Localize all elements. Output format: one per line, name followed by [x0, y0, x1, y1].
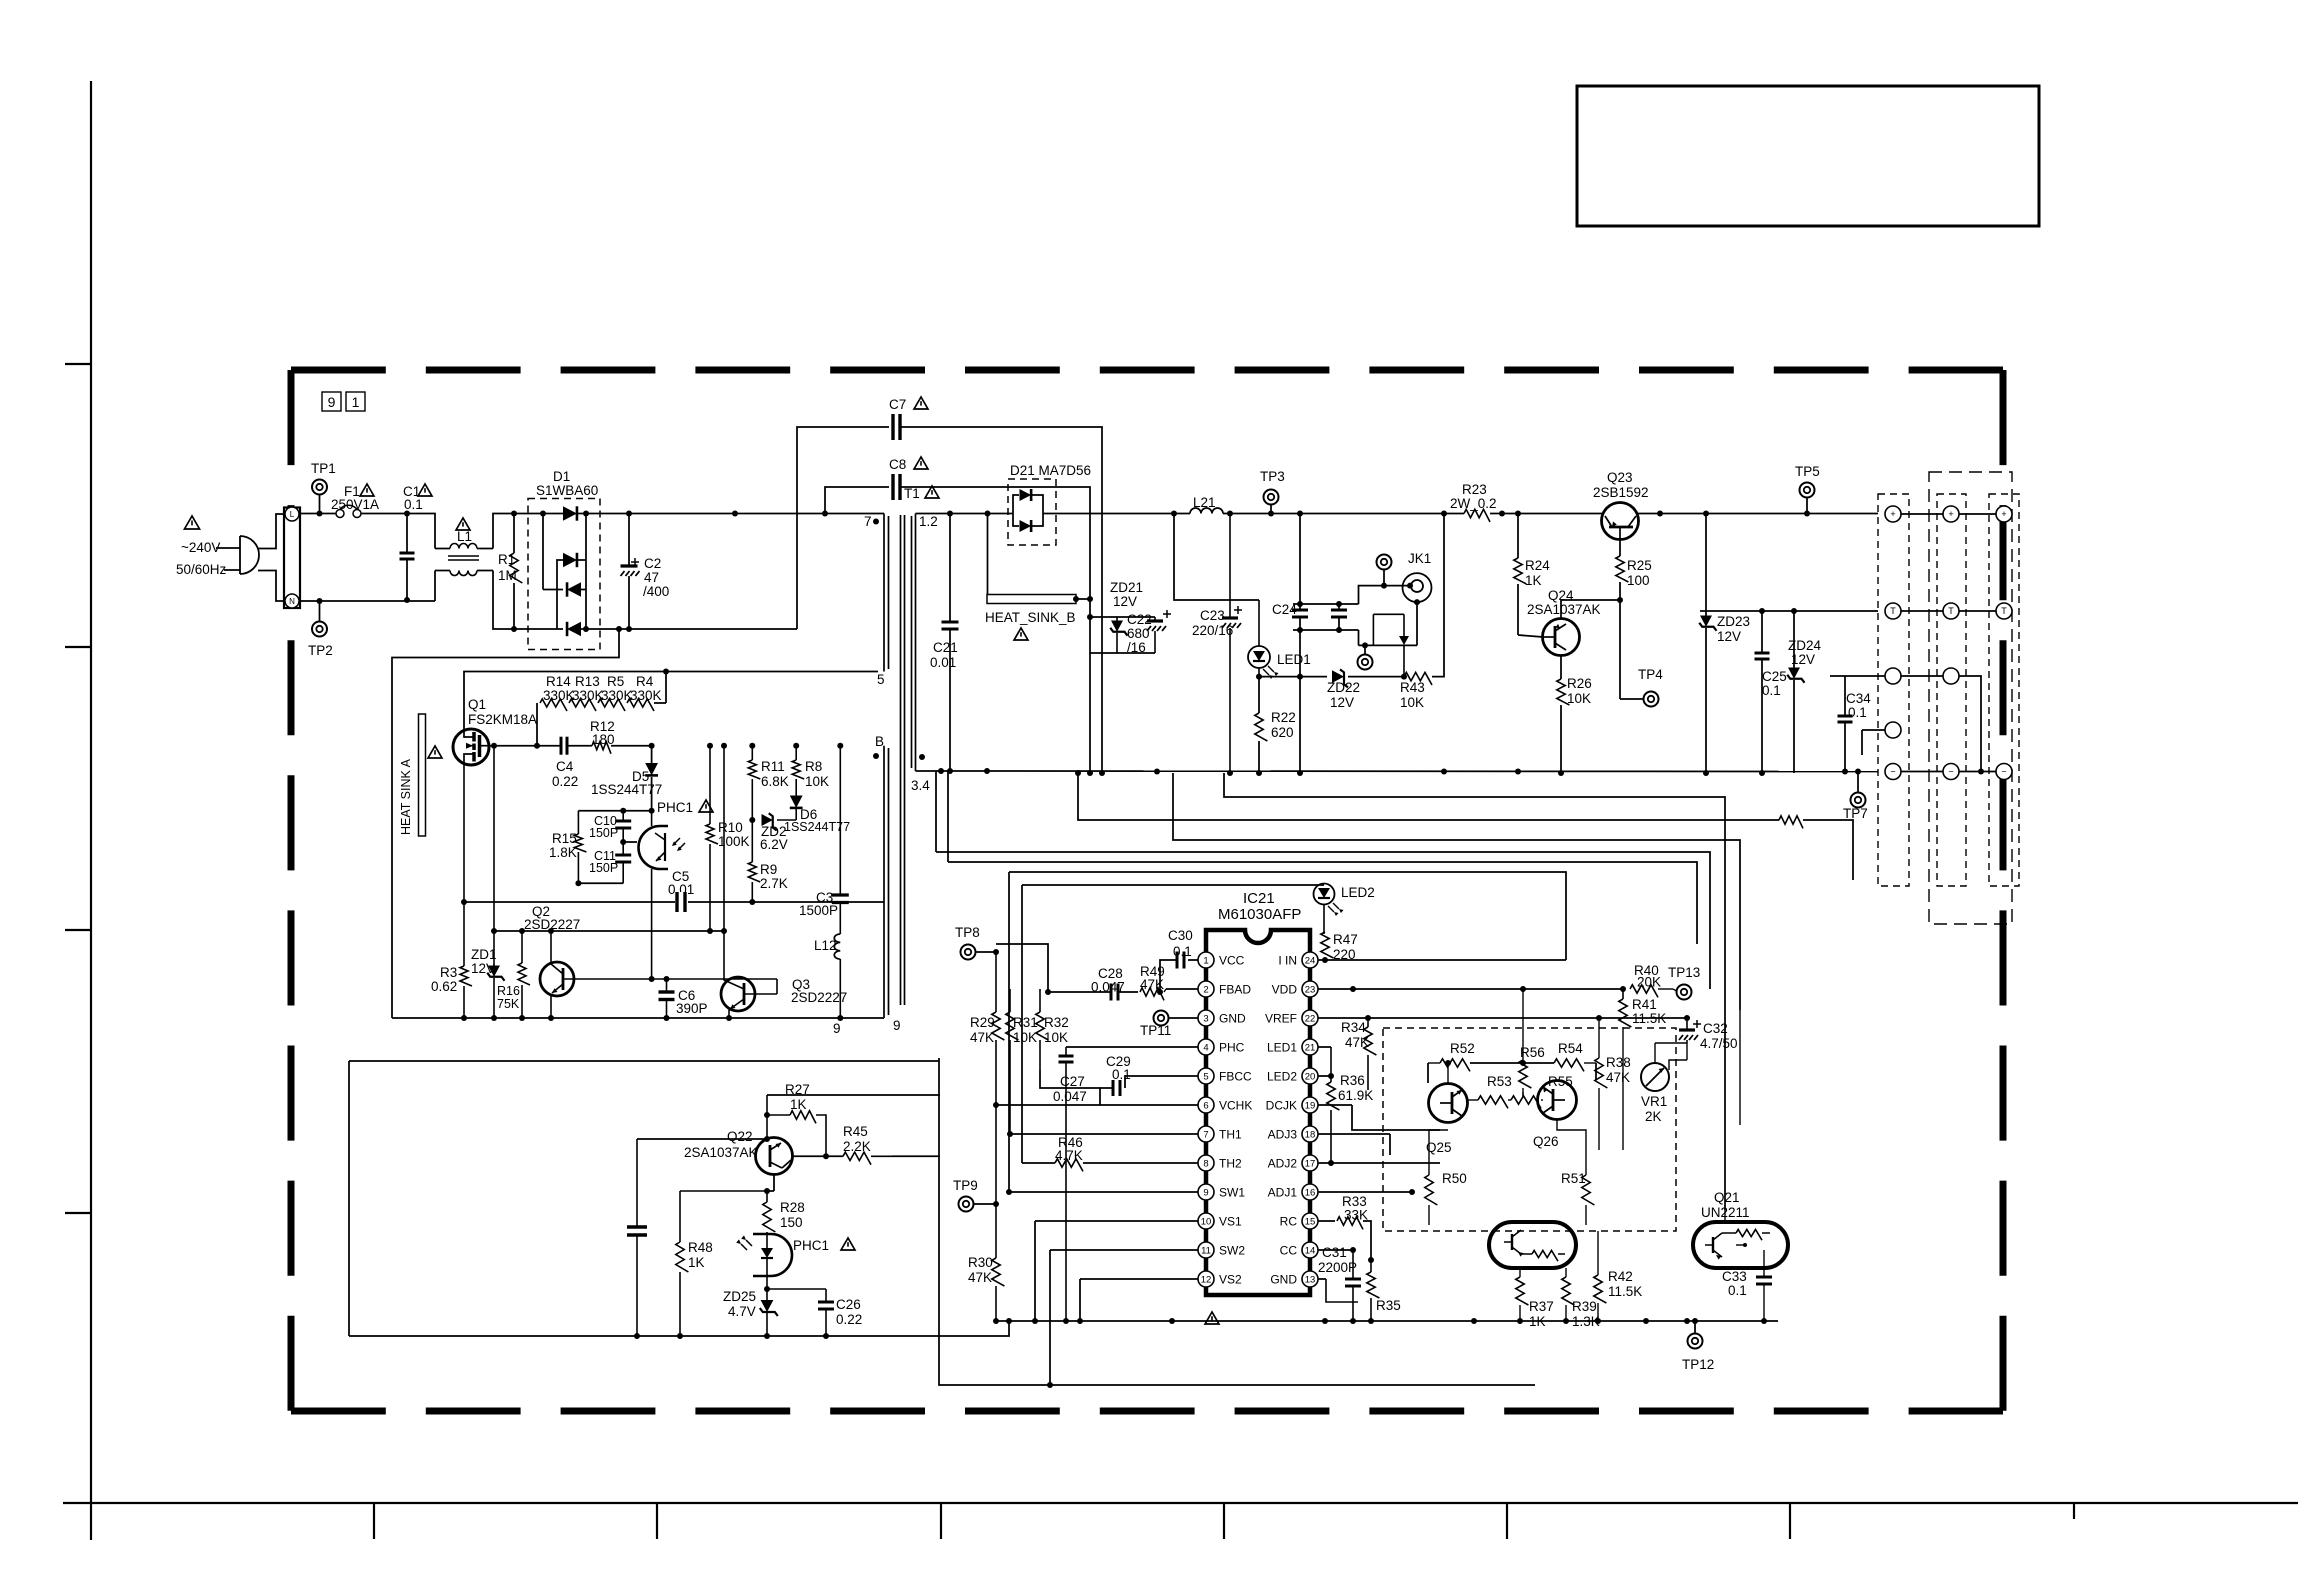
- svg-text:PHC1: PHC1: [657, 800, 693, 815]
- wire D6 bottom: [795, 809, 797, 820]
- svg-text:17: 17: [1305, 1159, 1316, 1170]
- wire top rail R1 to D1: [514, 513, 543, 515]
- zener ZD23: [1700, 616, 1712, 627]
- svg-text:0.1: 0.1: [1728, 1283, 1747, 1298]
- junction icb x1353: [1350, 1318, 1356, 1324]
- svg-text:T1: T1: [904, 486, 920, 501]
- svg-text:M61030AFP: M61030AFP: [1218, 906, 1301, 923]
- resistor R43: [1404, 672, 1432, 685]
- warning triangle C1: [418, 484, 432, 496]
- wire C24 plate stems: [1299, 604, 1301, 610]
- capacitor C6: [666, 979, 668, 992]
- svg-text:RC: RC: [1280, 1215, 1298, 1229]
- junction icb x1764: [1761, 1318, 1767, 1324]
- wire top rail C2 to T1: [629, 513, 884, 515]
- wire q22 left feed: [637, 1138, 767, 1140]
- svg-text:2SB1592: 2SB1592: [1593, 485, 1649, 500]
- svg-text:LED1: LED1: [1267, 1041, 1297, 1055]
- bridge D1 dashed box: [528, 499, 600, 650]
- IC21 pin 23 VDD: [1302, 981, 1318, 997]
- junction ZD2 left: [749, 817, 755, 823]
- IC21 pin 19 DCJK: [1302, 1097, 1318, 1113]
- svg-text:0.1: 0.1: [1112, 1067, 1131, 1082]
- junction R10 top: [707, 743, 713, 749]
- bridge diode 3: [543, 589, 563, 591]
- svg-text:R16: R16: [497, 984, 520, 998]
- svg-text:14: 14: [1305, 1246, 1316, 1257]
- wire row4 stub: [1861, 730, 1863, 755]
- connector pin N: [285, 594, 299, 608]
- svg-text:ZD25: ZD25: [723, 1289, 756, 1304]
- svg-text:0.1: 0.1: [1762, 683, 1781, 698]
- wire pin12 vs2: [1080, 1278, 1198, 1280]
- wire pin19 dcjk right: [1318, 1104, 1352, 1106]
- wire C1 bottom stem: [406, 559, 408, 600]
- capacitor C33: [1763, 1250, 1765, 1277]
- IC21 pin 4 PHC: [1198, 1039, 1214, 1055]
- wire gate node drop: [493, 746, 495, 931]
- svg-text:R29: R29: [970, 1015, 995, 1030]
- junction r27 left: [764, 1112, 770, 1118]
- svg-text:12V: 12V: [1717, 629, 1741, 644]
- resistor R22: [1255, 713, 1268, 741]
- wire C24 node ground: [1299, 677, 1301, 773]
- svg-text:2.7K: 2.7K: [760, 876, 788, 891]
- svg-text:47: 47: [644, 570, 659, 585]
- electrolytic C2 plus: [631, 561, 639, 563]
- wire tp jk lower stem: [1364, 645, 1366, 654]
- wire R52 left bend: [1427, 1063, 1429, 1083]
- resistor R35: [1370, 1260, 1372, 1272]
- transistor Q26: [1538, 1081, 1577, 1120]
- svg-text:22: 22: [1305, 1014, 1316, 1025]
- svg-text:S1WBA60: S1WBA60: [536, 483, 598, 498]
- wire ZD23 top: [1705, 514, 1707, 617]
- wire C32 bottom to VR1: [1686, 1043, 1688, 1060]
- junction node x623: [620, 808, 626, 814]
- warning triangle heat sink A: [428, 746, 442, 758]
- junction gnd x941: [938, 768, 944, 774]
- junction icb x1066: [1063, 1318, 1069, 1324]
- svg-text:C21: C21: [933, 640, 958, 655]
- wire R12 to D5 node: [611, 745, 652, 747]
- IC21 pin 13 GND: [1302, 1271, 1318, 1287]
- svg-text:LED2: LED2: [1341, 885, 1375, 900]
- electrolytic C23 plus: [1234, 609, 1242, 611]
- junction R11 top: [749, 743, 755, 749]
- wire L rail connector to F1: [300, 513, 336, 515]
- test point TP12: [1688, 1334, 1703, 1349]
- wire R-chain segments: [654, 702, 666, 704]
- electrolytic cap C23: [1229, 514, 1231, 619]
- test point above JK1: [1377, 555, 1392, 570]
- svg-text:7: 7: [1203, 1130, 1208, 1141]
- electrolytic cap C2: [628, 514, 630, 567]
- capacitor C26: [825, 1289, 827, 1302]
- wire C7 drop ground junction: [1099, 770, 1105, 776]
- svg-text:R4: R4: [636, 674, 654, 689]
- junction rail x1660: [1657, 511, 1663, 517]
- svg-text:50/60Hz: 50/60Hz: [176, 562, 227, 577]
- transistor Q2: [540, 962, 574, 996]
- wire lower loop bottom: [349, 1321, 1009, 1336]
- page frame bottom tick x=1224: [1223, 1503, 1225, 1539]
- svg-text:VCHK: VCHK: [1219, 1099, 1252, 1113]
- junction top rail x735: [732, 511, 738, 517]
- test point TP2: [312, 622, 327, 637]
- wire Q25 emitter to R50: [1429, 1130, 1448, 1175]
- wire pin13 gnd down: [1318, 1278, 1326, 1280]
- wire R-chain left riser: [536, 703, 538, 746]
- resistor R50: [1425, 1175, 1438, 1205]
- wire TP3 stem: [1270, 506, 1272, 514]
- wire TP7 stem: [1857, 772, 1859, 792]
- wire R25 bottom: [1619, 582, 1621, 693]
- svg-text:T: T: [2001, 606, 2007, 616]
- junction icb x1371: [1368, 1318, 1374, 1324]
- svg-text:C26: C26: [836, 1297, 861, 1312]
- svg-text:0.01: 0.01: [930, 655, 956, 670]
- wire C10C11 mid tap: [623, 841, 637, 843]
- svg-text:B: B: [875, 734, 884, 749]
- svg-text:R31: R31: [1013, 1015, 1038, 1030]
- svg-text:0.22: 0.22: [552, 774, 578, 789]
- test point TP11: [1154, 1011, 1169, 1026]
- svg-text:R54: R54: [1558, 1041, 1583, 1056]
- test point TP3: [1264, 490, 1279, 505]
- wire tangle row y862: [948, 862, 1697, 944]
- svg-text:TP5: TP5: [1795, 464, 1820, 479]
- svg-text:R13: R13: [575, 674, 600, 689]
- svg-text:LED2: LED2: [1267, 1070, 1297, 1084]
- wire Q24 collector up right: [1561, 600, 1620, 619]
- svg-text:R30: R30: [968, 1255, 993, 1270]
- svg-text:R52: R52: [1450, 1041, 1475, 1056]
- svg-text:3: 3: [1203, 1014, 1208, 1025]
- resistor R32: [1039, 989, 1041, 1012]
- svg-text:TP1: TP1: [311, 461, 336, 476]
- page frame left tick y=1213: [65, 1212, 91, 1214]
- connector pin r4a: [1885, 722, 1901, 738]
- AC plug: [240, 536, 259, 574]
- connector dashed box 3: [1989, 494, 2019, 886]
- resistor R13: [569, 699, 596, 711]
- resistor R11: [751, 746, 753, 760]
- electrolytic C32 plus: [1693, 1023, 1701, 1025]
- svg-text:C25: C25: [1762, 669, 1787, 684]
- svg-text:1K: 1K: [1525, 573, 1542, 588]
- svg-text:C30: C30: [1168, 928, 1193, 943]
- wire q22 emitter right: [792, 1155, 843, 1157]
- svg-text:4.7V: 4.7V: [728, 1304, 756, 1319]
- svg-text:21: 21: [1305, 1043, 1316, 1054]
- wire source row y902: [464, 901, 884, 903]
- IC21 pin 7 TH1: [1198, 1126, 1214, 1142]
- svg-text:13: 13: [1305, 1275, 1316, 1286]
- page frame bottom tick x=941: [940, 1503, 942, 1539]
- resistor R31: [1009, 989, 1011, 1012]
- capacitor C34: [1838, 715, 1853, 718]
- IC21 pin 15 RC: [1302, 1213, 1318, 1229]
- wire C25 top: [1761, 611, 1763, 653]
- wire tangle left drop x948: [947, 771, 949, 862]
- IC21 pin 12 VS2: [1198, 1271, 1214, 1287]
- svg-text:D21 MA7D56: D21 MA7D56: [1010, 463, 1091, 478]
- resistor R14: [540, 699, 567, 711]
- wire pin9 sw1: [1009, 1191, 1198, 1193]
- junction icb x1325: [1322, 1318, 1328, 1324]
- wire JK1 sleeve down: [1416, 602, 1418, 645]
- wire pin7 th1: [1010, 1133, 1198, 1135]
- junction TP1 on L wire: [317, 511, 323, 517]
- junction R1 top: [511, 511, 517, 517]
- svg-text:9: 9: [893, 1018, 901, 1033]
- T1 secondary winding: [915, 514, 917, 772]
- test point TP8: [961, 945, 976, 960]
- wire LED1 to R22: [1258, 677, 1260, 713]
- svg-text:1: 1: [352, 394, 360, 410]
- wire secondary top rail: [916, 513, 1014, 515]
- wire pin6 vchk: [996, 1104, 1198, 1106]
- svg-text:61.9K: 61.9K: [1338, 1088, 1373, 1103]
- svg-text:2K: 2K: [1645, 1109, 1662, 1124]
- junction D5 top: [649, 743, 655, 749]
- svg-text:VDD: VDD: [1272, 983, 1298, 997]
- page frame left border line: [90, 81, 92, 1540]
- junction 9 rail x522: [519, 1015, 525, 1021]
- IC21 pin 22 VREF: [1302, 1010, 1318, 1026]
- svg-text:R37: R37: [1529, 1299, 1554, 1314]
- svg-text:N: N: [289, 597, 295, 606]
- electrolytic cap C22: [1154, 617, 1156, 621]
- wire pin14 cc right: [1318, 1249, 1353, 1251]
- IC21 pin 10 VS1: [1198, 1213, 1214, 1229]
- svg-text:10K: 10K: [1044, 1030, 1068, 1045]
- wire pin5 fbcc: [1125, 1076, 1198, 1088]
- wire tangle row y852: [936, 852, 1710, 989]
- wire node row y810: [578, 810, 651, 812]
- wire C34 bottom: [1844, 722, 1846, 772]
- junction C2 bottom: [626, 626, 632, 632]
- svg-text:9: 9: [1203, 1188, 1208, 1199]
- junction R8 top: [793, 743, 799, 749]
- junction rail x1706: [1703, 511, 1709, 517]
- wire TP13 stem: [1673, 989, 1677, 991]
- svg-text:R48: R48: [688, 1240, 713, 1255]
- resistor R3: [463, 902, 465, 966]
- junction q22 r48 node: [764, 1188, 770, 1194]
- svg-text:TH2: TH2: [1219, 1157, 1242, 1171]
- warning triangle C7: [914, 397, 928, 409]
- wire IC bottom rail: [996, 1320, 1778, 1322]
- svg-text:TP7: TP7: [1843, 806, 1868, 821]
- svg-text:TP12: TP12: [1682, 1357, 1714, 1372]
- svg-text:1M: 1M: [498, 568, 517, 583]
- svg-text:Q26: Q26: [1533, 1134, 1559, 1149]
- wire C21 stem top: [949, 514, 951, 623]
- svg-text:L12: L12: [814, 938, 837, 953]
- warning triangle PHC1 b: [841, 1238, 855, 1250]
- wire bottom 9 rail: [392, 1017, 884, 1019]
- resistor R10: [709, 746, 711, 824]
- svg-text:C2: C2: [644, 556, 661, 571]
- junction D1 in top: [540, 511, 546, 517]
- svg-text:VS2: VS2: [1219, 1273, 1242, 1287]
- connector pin T3c: [1996, 603, 2012, 619]
- svg-text:JK1: JK1: [1408, 551, 1431, 566]
- resistor R51: [1582, 1175, 1595, 1205]
- svg-text:PHC: PHC: [1219, 1041, 1245, 1055]
- T1 pin B polarity dot: [873, 753, 879, 759]
- IC21 pin 17 ADJ2: [1302, 1155, 1318, 1171]
- resistor R30: [995, 1105, 997, 1258]
- junction gnd x1157: [1154, 769, 1160, 775]
- svg-text:24: 24: [1305, 956, 1316, 967]
- wire R52R54 mid: [1470, 1062, 1554, 1064]
- junction vdd x1523: [1520, 986, 1526, 992]
- wire PHC1a collector: [651, 811, 653, 826]
- svg-text:11.5K: 11.5K: [1608, 1284, 1642, 1299]
- wire F1 to C1 node: [361, 513, 407, 515]
- wire D5 stem: [651, 746, 653, 764]
- junction loop bottom x767: [764, 1333, 770, 1339]
- bridge wire left top: [542, 514, 544, 590]
- capacitor C5: [675, 892, 688, 912]
- svg-text:TP13: TP13: [1668, 965, 1700, 980]
- resistor R5: [598, 699, 625, 711]
- page frame bottom tick x=657: [656, 1503, 658, 1539]
- wire tangle left drop x1009: [1008, 872, 1010, 1192]
- svg-text:2.2K: 2.2K: [843, 1139, 871, 1154]
- svg-text:SW1: SW1: [1219, 1186, 1245, 1200]
- wire right mid riser x1740: [1739, 1010, 1741, 1125]
- junction C6 top: [664, 976, 670, 982]
- svg-text:Q23: Q23: [1607, 470, 1633, 485]
- junction 9 rail x666: [664, 1015, 670, 1021]
- resistor R49: [1140, 988, 1164, 1001]
- svg-text:R56: R56: [1520, 1045, 1545, 1060]
- resistor R26: [1557, 679, 1570, 705]
- IC21 body: [1206, 930, 1310, 1295]
- resistor R38: [1598, 1018, 1600, 1058]
- resistor R37: [1519, 1268, 1521, 1277]
- T1 pin 7 polarity dot: [873, 519, 879, 525]
- wire L rail C1 to L1: [407, 514, 435, 549]
- wire DC- into Q1 block: [392, 629, 619, 1018]
- junction loop bottom x637: [634, 1333, 640, 1339]
- svg-text:10K: 10K: [805, 774, 829, 789]
- wire bottom rail C2 to C7 drop: [629, 628, 797, 630]
- svg-text:0.047: 0.047: [1053, 1089, 1087, 1104]
- junction rail x1300: [1297, 511, 1303, 517]
- wire TP4 stem: [1619, 693, 1621, 699]
- connector pin -3: [1996, 764, 2012, 780]
- svg-text:VR1: VR1: [1641, 1094, 1667, 1109]
- svg-text:TP4: TP4: [1638, 667, 1663, 682]
- connector pin L: [285, 507, 299, 521]
- svg-text:Q22: Q22: [727, 1129, 753, 1144]
- svg-text:12: 12: [1201, 1275, 1212, 1286]
- choke L1 top winding: [450, 544, 477, 549]
- wire HS B left stem: [987, 514, 989, 595]
- wire collector row y931: [494, 930, 724, 932]
- wire R24 bottom: [1517, 584, 1519, 635]
- resistor R29: [995, 952, 997, 1012]
- wire ZD21 C22 top: [1090, 616, 1155, 618]
- wire pin21 led1 right: [1318, 1046, 1331, 1048]
- svg-text:Q1: Q1: [468, 697, 486, 712]
- wire Q1 gate row: [494, 745, 561, 747]
- wire pin8 th2: [1097, 1162, 1198, 1164]
- svg-text:0.22: 0.22: [836, 1312, 862, 1327]
- zener ZD21: [1116, 617, 1118, 621]
- resistor R15: [577, 811, 579, 834]
- page frame left tick y=930: [65, 929, 91, 931]
- wire R43 right up: [1432, 514, 1444, 677]
- photocoupler PHC1 a: [639, 826, 661, 869]
- wire C1 top stem: [406, 514, 408, 554]
- svg-text:R32: R32: [1044, 1015, 1069, 1030]
- svg-text:18: 18: [1305, 1130, 1316, 1141]
- wire rail L21 to R23: [1223, 513, 1464, 515]
- wire C4 to R12: [567, 745, 592, 747]
- svg-text:TP3: TP3: [1260, 469, 1285, 484]
- svg-text:ADJ3: ADJ3: [1268, 1128, 1298, 1142]
- svg-text:1: 1: [1203, 956, 1208, 967]
- svg-text:R36: R36: [1340, 1073, 1365, 1088]
- svg-text:R3: R3: [440, 965, 457, 980]
- junction Q2 base phc: [649, 976, 655, 982]
- mosfet Q1: [453, 729, 489, 765]
- connector T row wires: [1901, 610, 1943, 612]
- wire q25q26 inner bus: [1522, 1092, 1524, 1097]
- wire tangle row y840: [1173, 773, 1740, 1010]
- junction vdd x1353: [1350, 986, 1356, 992]
- junction row931 x522: [519, 928, 525, 934]
- svg-text:0.1: 0.1: [1848, 705, 1867, 720]
- wire C24 node down: [1299, 630, 1301, 677]
- svg-text:1.3K: 1.3K: [1572, 1314, 1600, 1329]
- connector long-dash box: [1929, 472, 2012, 924]
- junction icb x1598: [1595, 1318, 1601, 1324]
- svg-text:11.5K: 11.5K: [1632, 1011, 1666, 1026]
- svg-text:150: 150: [780, 1215, 803, 1230]
- svg-text:D1: D1: [553, 469, 570, 484]
- wire C7 left: [797, 427, 889, 629]
- svg-text:−: −: [2001, 767, 2006, 777]
- svg-text:DCJK: DCJK: [1266, 1099, 1297, 1113]
- warning triangle C8: [914, 457, 928, 469]
- svg-text:2W_0.2: 2W_0.2: [1450, 496, 1497, 511]
- IC21 pin 11 SW2: [1198, 1242, 1214, 1258]
- svg-text:ADJ2: ADJ2: [1268, 1157, 1298, 1171]
- junction C1 top: [404, 511, 410, 517]
- svg-text:23: 23: [1305, 985, 1316, 996]
- junction C8 drop ground: [1087, 770, 1093, 776]
- wire bottom rail R1 to D1: [514, 628, 557, 630]
- wire tangle left drop x1022: [1021, 885, 1023, 1163]
- connector - row wires: [1901, 771, 1943, 773]
- capacitor C4: [560, 737, 563, 755]
- connector row3 wire: [1830, 675, 1885, 677]
- wire pin11 sw2: [1050, 1249, 1198, 1251]
- svg-text:9: 9: [328, 394, 336, 410]
- svg-text:C33: C33: [1722, 1269, 1747, 1284]
- svg-text:R5: R5: [607, 674, 624, 689]
- svg-text:R42: R42: [1608, 1269, 1633, 1284]
- transistor Q22: [756, 1138, 793, 1175]
- svg-text:220/16: 220/16: [1192, 623, 1233, 638]
